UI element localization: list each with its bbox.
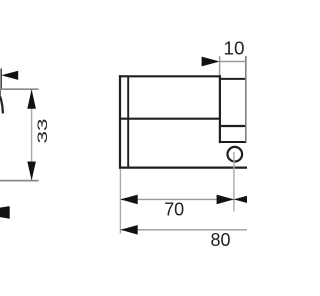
end section right edge / extension line of 10 dimension [245, 56, 247, 142]
dimension line: vertical 33 dimension [31, 90, 33, 181]
arrowhead: left-pointing arrow of cut-off right dimension [234, 195, 251, 205]
arrowhead: left arrow of 70 [120, 195, 137, 205]
extension line: top of 33 dimension [0, 88, 39, 90]
svg-text:80: 80 [211, 230, 231, 250]
dimension line of 70 [120, 198, 233, 200]
extension line at x=219.6 above body [219, 56, 221, 75]
svg-text:10: 10 [224, 37, 245, 58]
body top edge [119, 75, 221, 77]
arrowhead: lone outside arrow pointing left at lower left edge [0, 206, 10, 219]
arrowhead: up arrow of 33 dimension [27, 89, 36, 108]
body left edge [119, 75, 121, 169]
end section bottom edge [220, 141, 247, 143]
dimension line of 10 [220, 61, 247, 63]
arrowhead: outside dimension arrow pointing left at left edge [1, 71, 18, 80]
end section inner line [220, 125, 247, 127]
extension line below body left face [119, 169, 121, 234]
body bottom edge (runs to image edge) [119, 167, 247, 169]
arrowhead: right arrow of 70 [217, 195, 234, 205]
front-view outline arc (right edge of face circle, mostly off-image) [0, 95, 3, 114]
arrowhead: left arrow of 80 [120, 225, 137, 235]
dimension segment right of cam centre (cut off at image edge) [234, 198, 247, 200]
svg-text:33: 33 [35, 119, 50, 144]
body right edge / step [219, 75, 221, 143]
dimension line of 80 [120, 229, 247, 231]
cam screw circle [228, 147, 243, 162]
extension line: bottom of 33 dimension [0, 180, 39, 182]
arrowhead: down arrow of 33 dimension [27, 162, 36, 181]
body face rim line [127, 76, 129, 167]
arrowhead: outside arrow pointing right for 10 [202, 57, 220, 67]
wire: short vertical extension line at left edge [0, 69, 2, 90]
body mid line [120, 118, 220, 120]
svg-text:70: 70 [164, 199, 184, 219]
wire: faint vertical outline segment above arc [0, 90, 2, 97]
end section top edge [220, 78, 247, 80]
extension line below cam circle [233, 152, 235, 212]
